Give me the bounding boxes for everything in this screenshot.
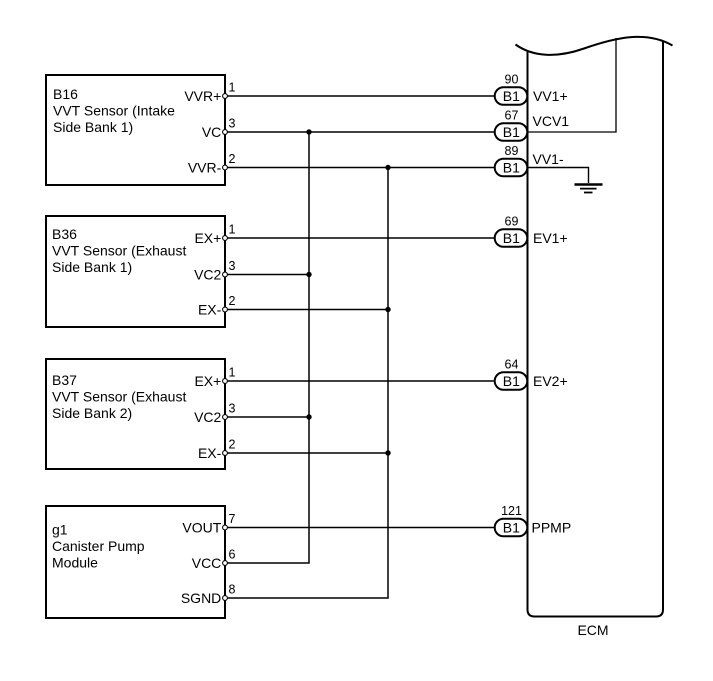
svg-text:1: 1 — [229, 366, 236, 380]
svg-text:VCC: VCC — [192, 555, 222, 571]
svg-text:3: 3 — [229, 402, 236, 416]
svg-text:EV1+: EV1+ — [533, 230, 568, 246]
svg-text:B1: B1 — [503, 520, 520, 536]
svg-text:EX-: EX- — [198, 445, 222, 461]
svg-text:VVT Sensor (Intake: VVT Sensor (Intake — [53, 102, 175, 118]
svg-text:1: 1 — [229, 81, 236, 95]
svg-text:69: 69 — [505, 215, 519, 229]
svg-text:VVR+: VVR+ — [184, 88, 221, 104]
svg-text:EV2+: EV2+ — [533, 373, 568, 389]
svg-text:VVR-: VVR- — [188, 160, 222, 176]
svg-text:6: 6 — [229, 548, 236, 562]
svg-text:Module: Module — [52, 555, 98, 571]
svg-text:B1: B1 — [503, 373, 520, 389]
svg-text:89: 89 — [505, 144, 519, 158]
svg-text:8: 8 — [229, 583, 236, 597]
svg-text:VV1-: VV1- — [533, 151, 564, 167]
svg-text:VVT Sensor (Exhaust: VVT Sensor (Exhaust — [52, 243, 186, 259]
svg-text:EX+: EX+ — [194, 373, 221, 389]
svg-text:3: 3 — [229, 259, 236, 273]
svg-text:VOUT: VOUT — [182, 520, 221, 536]
svg-text:B1: B1 — [503, 230, 520, 246]
svg-text:121: 121 — [501, 504, 522, 518]
svg-text:VC2: VC2 — [194, 409, 221, 425]
svg-text:VC2: VC2 — [194, 267, 221, 283]
svg-text:B36: B36 — [52, 226, 77, 242]
svg-text:SGND: SGND — [181, 590, 221, 606]
svg-text:67: 67 — [505, 109, 519, 123]
svg-text:Side Bank 1): Side Bank 1) — [53, 119, 133, 135]
svg-text:VC: VC — [202, 124, 221, 140]
svg-text:ECM: ECM — [577, 622, 608, 638]
svg-text:64: 64 — [505, 358, 519, 372]
svg-text:1: 1 — [229, 223, 236, 237]
svg-text:7: 7 — [229, 512, 236, 526]
svg-text:VVT Sensor (Exhaust: VVT Sensor (Exhaust — [52, 388, 186, 404]
svg-text:EX-: EX- — [198, 302, 222, 318]
svg-text:3: 3 — [229, 117, 236, 131]
svg-text:B1: B1 — [503, 160, 520, 176]
svg-text:PPMP: PPMP — [532, 519, 572, 535]
svg-text:VV1+: VV1+ — [533, 88, 568, 104]
svg-text:90: 90 — [505, 73, 519, 87]
svg-text:Canister Pump: Canister Pump — [52, 538, 145, 554]
svg-text:2: 2 — [229, 438, 236, 452]
svg-text:VCV1: VCV1 — [533, 113, 570, 129]
svg-text:B1: B1 — [503, 124, 520, 140]
svg-text:2: 2 — [229, 294, 236, 308]
svg-text:B1: B1 — [503, 88, 520, 104]
svg-text:g1: g1 — [52, 522, 68, 538]
svg-text:B16: B16 — [53, 86, 78, 102]
svg-text:EX+: EX+ — [194, 230, 221, 246]
svg-text:Side Bank 2): Side Bank 2) — [52, 405, 132, 421]
svg-text:Side Bank 1): Side Bank 1) — [52, 259, 132, 275]
svg-text:2: 2 — [229, 152, 236, 166]
svg-text:B37: B37 — [52, 372, 77, 388]
